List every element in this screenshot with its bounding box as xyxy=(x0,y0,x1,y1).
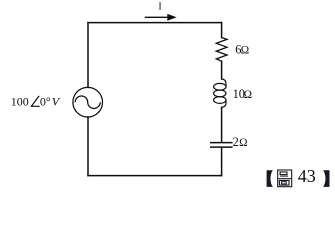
svg-text:Ω: Ω xyxy=(241,44,249,56)
svg-text:Ω: Ω xyxy=(239,137,247,149)
svg-text:100: 100 xyxy=(11,94,29,108)
svg-text:Ω: Ω xyxy=(244,89,252,101)
svg-text:2: 2 xyxy=(233,135,239,149)
svg-text:0°: 0° xyxy=(40,94,51,108)
svg-text:43: 43 xyxy=(298,166,316,186)
svg-text:I: I xyxy=(158,2,161,13)
